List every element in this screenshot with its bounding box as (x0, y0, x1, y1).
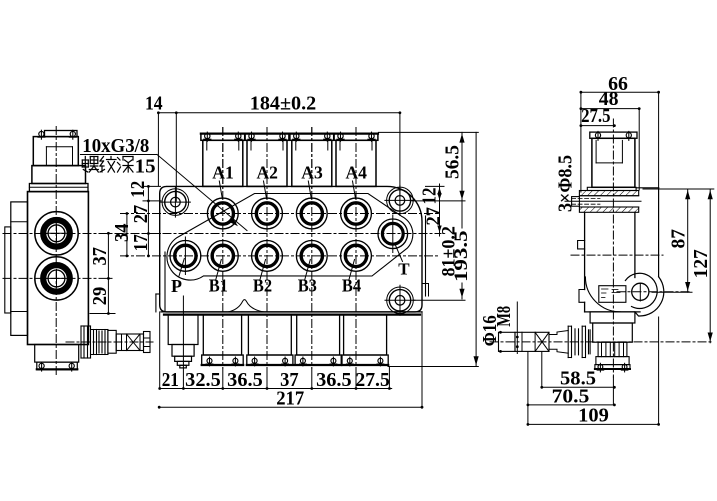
svg-text:36.5: 36.5 (227, 369, 263, 391)
svg-text:27.5: 27.5 (581, 105, 610, 127)
svg-text:A1: A1 (212, 162, 234, 182)
svg-text:B1: B1 (209, 275, 228, 295)
svg-text:27: 27 (423, 207, 445, 226)
svg-text:P: P (171, 276, 182, 296)
svg-text:184±0.2: 184±0.2 (250, 93, 317, 115)
svg-text:T: T (398, 260, 410, 279)
svg-text:12: 12 (127, 181, 149, 198)
svg-text:B2: B2 (253, 275, 272, 295)
svg-text:29: 29 (89, 287, 111, 306)
svg-text:B3: B3 (298, 275, 317, 295)
svg-text:109: 109 (578, 405, 609, 427)
svg-text:37: 37 (89, 247, 111, 266)
svg-text:87: 87 (667, 229, 689, 249)
svg-text:12: 12 (419, 188, 441, 205)
svg-text:127: 127 (690, 249, 712, 278)
svg-text:27.5: 27.5 (355, 369, 390, 391)
svg-text:10xG3/8: 10xG3/8 (82, 135, 149, 157)
svg-text:21: 21 (162, 369, 179, 391)
svg-text:217: 217 (276, 388, 304, 410)
svg-text:A2: A2 (256, 162, 278, 182)
svg-text:M8: M8 (493, 306, 515, 327)
svg-text:A3: A3 (301, 162, 323, 182)
svg-text:17: 17 (130, 234, 152, 251)
svg-text:34: 34 (111, 223, 133, 242)
svg-text:3×Φ8.5: 3×Φ8.5 (554, 155, 576, 212)
svg-text:B4: B4 (342, 275, 361, 295)
svg-text:32.5: 32.5 (185, 369, 221, 391)
svg-text:A4: A4 (345, 162, 367, 182)
svg-text:36.5: 36.5 (316, 369, 352, 391)
svg-text:27: 27 (130, 205, 152, 224)
svg-text:193.5: 193.5 (451, 230, 472, 282)
svg-text:56.5: 56.5 (442, 145, 464, 179)
svg-text:14: 14 (145, 93, 163, 115)
svg-text:15: 15 (135, 156, 156, 178)
